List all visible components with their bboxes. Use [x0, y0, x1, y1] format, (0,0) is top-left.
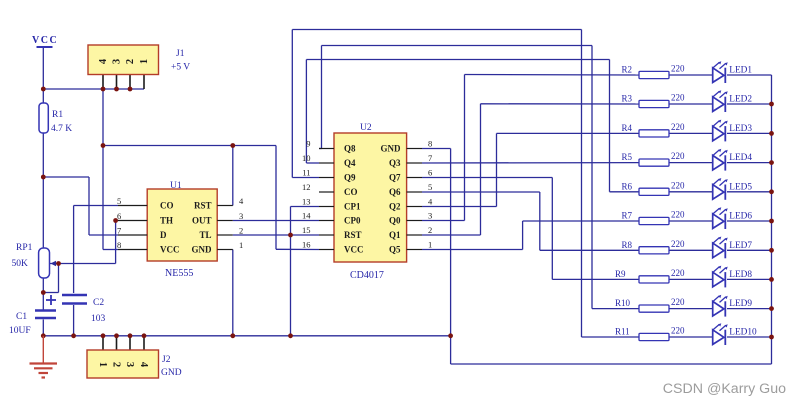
svg-text:R6: R6	[622, 181, 633, 191]
svg-text:R4: R4	[622, 123, 633, 133]
svg-text:220: 220	[671, 64, 685, 74]
svg-text:RP1: RP1	[16, 243, 33, 253]
svg-text:4.7 K: 4.7 K	[51, 124, 72, 134]
svg-text:15: 15	[302, 225, 311, 235]
svg-text:Q4: Q4	[344, 158, 356, 168]
svg-text:U1: U1	[170, 181, 182, 191]
svg-text:GND: GND	[381, 144, 402, 154]
svg-text:R11: R11	[615, 327, 630, 337]
svg-text:103: 103	[91, 314, 106, 324]
svg-text:Q1: Q1	[389, 230, 401, 240]
svg-text:VCC: VCC	[344, 245, 364, 255]
svg-text:Q2: Q2	[389, 202, 401, 212]
svg-text:LED4: LED4	[729, 153, 752, 163]
svg-text:C1: C1	[16, 312, 27, 322]
svg-text:LED9: LED9	[729, 299, 752, 309]
svg-text:CP0: CP0	[344, 216, 361, 226]
svg-text:13: 13	[302, 197, 311, 207]
svg-text:3: 3	[124, 362, 135, 367]
svg-text:9: 9	[306, 139, 310, 149]
svg-text:1: 1	[428, 240, 432, 250]
svg-text:GND: GND	[161, 368, 182, 378]
svg-text:Q6: Q6	[389, 187, 401, 197]
svg-text:6: 6	[117, 211, 121, 221]
svg-text:220: 220	[671, 151, 685, 161]
svg-text:J1: J1	[176, 49, 185, 59]
svg-text:5: 5	[117, 196, 121, 206]
svg-text:R1: R1	[52, 110, 63, 120]
svg-text:TL: TL	[199, 230, 211, 240]
svg-text:220: 220	[671, 93, 685, 103]
svg-text:LED2: LED2	[729, 95, 752, 105]
svg-text:D: D	[160, 230, 167, 240]
svg-text:5: 5	[428, 182, 432, 192]
svg-text:11: 11	[302, 168, 310, 178]
svg-text:R9: R9	[615, 269, 626, 279]
svg-text:4: 4	[138, 362, 149, 368]
svg-text:Q8: Q8	[344, 144, 356, 154]
svg-text:R5: R5	[622, 152, 633, 162]
svg-text:LED7: LED7	[729, 241, 752, 251]
svg-text:GND: GND	[192, 245, 213, 255]
svg-text:CP1: CP1	[344, 202, 361, 212]
svg-text:LED3: LED3	[729, 124, 752, 134]
svg-text:VCC: VCC	[160, 245, 180, 255]
svg-text:12: 12	[302, 182, 311, 192]
svg-text:TH: TH	[160, 216, 173, 226]
svg-text:3: 3	[112, 59, 123, 64]
svg-text:CO: CO	[344, 187, 358, 197]
svg-text:LED5: LED5	[729, 182, 752, 192]
svg-text:CD4017: CD4017	[350, 270, 384, 281]
svg-text:R2: R2	[622, 65, 633, 75]
svg-text:7: 7	[428, 153, 432, 163]
svg-text:1: 1	[97, 362, 108, 367]
svg-text:8: 8	[428, 139, 432, 149]
svg-text:2: 2	[125, 59, 136, 64]
svg-text:6: 6	[428, 168, 432, 178]
svg-text:RST: RST	[344, 230, 362, 240]
svg-text:U2: U2	[360, 123, 372, 133]
svg-text:220: 220	[671, 326, 685, 336]
svg-text:3: 3	[239, 211, 243, 221]
svg-text:220: 220	[671, 268, 685, 278]
svg-text:CO: CO	[160, 201, 174, 211]
svg-text:1: 1	[139, 59, 150, 64]
svg-text:R10: R10	[615, 298, 631, 308]
svg-text:Q3: Q3	[389, 158, 401, 168]
svg-text:C2: C2	[93, 298, 104, 308]
svg-text:RST: RST	[194, 201, 212, 211]
svg-text:R8: R8	[622, 240, 633, 250]
svg-text:LED10: LED10	[729, 328, 757, 338]
svg-text:220: 220	[671, 297, 685, 307]
svg-text:10: 10	[302, 153, 311, 163]
svg-text:+5 V: +5 V	[171, 63, 190, 73]
svg-text:R7: R7	[622, 211, 633, 221]
svg-text:R3: R3	[622, 94, 633, 104]
svg-text:1: 1	[239, 240, 243, 250]
svg-text:2: 2	[239, 226, 243, 236]
svg-text:10UF: 10UF	[9, 326, 31, 336]
svg-text:7: 7	[117, 226, 121, 236]
svg-text:OUT: OUT	[192, 216, 212, 226]
svg-text:LED8: LED8	[729, 270, 752, 280]
svg-text:2: 2	[111, 362, 122, 367]
svg-text:8: 8	[117, 240, 121, 250]
svg-text:2: 2	[428, 225, 432, 235]
svg-text:CSDN @Karry Guo: CSDN @Karry Guo	[663, 381, 786, 397]
svg-text:Q5: Q5	[389, 245, 401, 255]
svg-text:220: 220	[671, 180, 685, 190]
svg-text:50K: 50K	[12, 259, 29, 269]
svg-text:LED1: LED1	[729, 66, 752, 76]
svg-text:220: 220	[671, 210, 685, 220]
svg-text:Q7: Q7	[389, 173, 401, 183]
svg-text:Q0: Q0	[389, 216, 401, 226]
svg-text:LED6: LED6	[729, 212, 752, 222]
svg-text:4: 4	[98, 58, 109, 64]
svg-text:Q9: Q9	[344, 173, 356, 183]
svg-text:14: 14	[302, 211, 311, 221]
svg-text:16: 16	[302, 240, 311, 250]
svg-text:220: 220	[671, 122, 685, 132]
svg-text:3: 3	[428, 211, 432, 221]
svg-text:VCC: VCC	[32, 35, 58, 46]
svg-text:J2: J2	[162, 355, 171, 365]
svg-text:NE555: NE555	[165, 268, 193, 279]
svg-text:220: 220	[671, 239, 685, 249]
